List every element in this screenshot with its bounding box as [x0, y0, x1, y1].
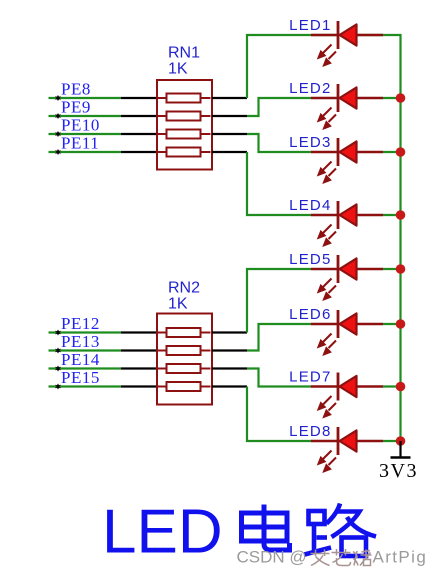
title glyph 电	[242, 505, 290, 551]
pin RN2.4 left	[121, 385, 157, 387]
svg-text:RN1: RN1	[168, 45, 200, 62]
LED2	[311, 84, 383, 128]
pin RN1.2 right	[212, 115, 247, 117]
resistor network RN1 body	[157, 80, 212, 170]
no-ERC marker PE9	[56, 113, 61, 119]
LED1	[311, 21, 383, 65]
resistor RN1 element 4	[157, 148, 211, 157]
svg-text:ArtPig: ArtPig	[373, 548, 428, 567]
power bus 3V3 vertical	[312, 35, 401, 441]
title glyph 路	[305, 504, 377, 557]
svg-text:1K: 1K	[168, 296, 188, 313]
wire LED8 to bus	[383, 440, 401, 442]
junction at LED6/bus	[396, 319, 406, 329]
wire RN2.4 to LED8	[247, 387, 312, 442]
svg-text:LED3: LED3	[289, 134, 331, 151]
wire LED3 to bus	[383, 151, 401, 153]
junction at LED3/bus	[396, 147, 406, 157]
wire PE14	[49, 367, 122, 369]
watermark char 猪	[353, 550, 372, 566]
svg-text:PE11: PE11	[61, 134, 99, 153]
junction at LED4/bus	[396, 210, 406, 220]
resistor RN1 element 2	[157, 112, 211, 121]
pin RN2.2 left	[121, 349, 157, 351]
no-ERC marker PE13	[56, 348, 61, 354]
wire LED7 to bus	[383, 385, 401, 387]
wire PE13	[49, 349, 122, 351]
wire RN1.1 to LED1	[247, 35, 312, 98]
wire PE8	[49, 97, 122, 99]
LED8	[311, 427, 383, 471]
no-ERC marker PE12	[56, 330, 61, 336]
resistor RN2 element 3	[157, 364, 211, 373]
no-ERC marker PE8	[56, 95, 61, 101]
wire PE11	[49, 151, 122, 153]
pin RN2.3 right	[212, 367, 247, 369]
svg-text:3V3: 3V3	[379, 460, 418, 482]
pin RN1.3 right	[212, 133, 247, 135]
pin RN2.4 right	[212, 385, 247, 387]
svg-text:LED1: LED1	[289, 17, 331, 34]
power port 3V3	[391, 441, 411, 458]
svg-text:1K: 1K	[168, 61, 188, 78]
pin RN1.4 left	[121, 151, 157, 153]
resistor RN1 element 1	[157, 94, 211, 103]
junction at LED2/bus	[396, 93, 406, 103]
svg-text:CSDN @: CSDN @	[237, 548, 307, 567]
svg-text:LED: LED	[102, 498, 223, 567]
wire RN1.4 to LED4	[247, 152, 312, 215]
LED6	[311, 310, 383, 354]
wire LED5 to bus	[383, 268, 401, 270]
wire PE9	[49, 115, 122, 117]
no-ERC marker PE14	[56, 366, 61, 372]
junction at LED7/bus	[396, 382, 406, 392]
no-ERC marker PE10	[56, 131, 61, 137]
junction at LED8/bus	[396, 436, 406, 446]
resistor RN2 element 4	[157, 382, 211, 391]
wire PE15	[49, 385, 122, 387]
LED4	[311, 201, 383, 245]
wire LED6 to bus	[383, 323, 401, 325]
no-ERC marker PE11	[56, 149, 61, 155]
svg-text:LED7: LED7	[289, 369, 331, 386]
pin RN2.3 left	[121, 367, 157, 369]
pin RN2.1 left	[121, 331, 157, 333]
svg-text:PE12: PE12	[61, 314, 100, 333]
svg-text:RN2: RN2	[168, 280, 200, 297]
no-ERC marker PE15	[56, 384, 61, 390]
wire PE10	[49, 133, 122, 135]
pin RN1.1 right	[212, 97, 247, 99]
pin RN1.4 right	[212, 151, 247, 153]
wire PE12	[49, 331, 122, 333]
LED5	[311, 255, 383, 299]
pin RN2.2 right	[212, 349, 247, 351]
resistor RN2 element 2	[157, 346, 211, 355]
watermark char 艺	[332, 549, 351, 566]
svg-text:PE14: PE14	[61, 350, 100, 369]
resistor RN2 element 1	[157, 328, 211, 337]
wire LED4 to bus	[383, 214, 401, 216]
pin RN1.1 left	[121, 97, 157, 99]
svg-text:PE13: PE13	[61, 332, 100, 351]
wire RN1.2 to LED2	[247, 98, 312, 116]
pin RN2.1 right	[212, 331, 247, 333]
junction at LED5/bus	[396, 264, 406, 274]
svg-text:LED6: LED6	[289, 306, 331, 323]
LED3	[311, 138, 383, 182]
svg-text:LED8: LED8	[289, 423, 331, 440]
wire LED2 to bus	[383, 97, 401, 99]
wire RN2.3 to LED7	[247, 369, 312, 387]
svg-text:PE10: PE10	[61, 116, 100, 135]
svg-text:LED4: LED4	[289, 197, 331, 214]
svg-text:PE15: PE15	[61, 368, 100, 387]
wire RN2.1 to LED5	[247, 269, 312, 333]
svg-text:LED5: LED5	[289, 251, 331, 268]
svg-text:LED2: LED2	[289, 80, 331, 97]
resistor network RN2 body	[157, 314, 212, 405]
LED7	[311, 373, 383, 417]
wire RN1.3 to LED3	[247, 134, 312, 152]
pin RN1.3 left	[121, 133, 157, 135]
wire RN2.2 to LED6	[247, 324, 312, 351]
svg-text:PE9: PE9	[61, 98, 91, 117]
svg-text:PE8: PE8	[61, 80, 91, 99]
watermark char 艾	[311, 550, 330, 566]
pin RN1.2 left	[121, 115, 157, 117]
resistor RN1 element 3	[157, 130, 211, 139]
